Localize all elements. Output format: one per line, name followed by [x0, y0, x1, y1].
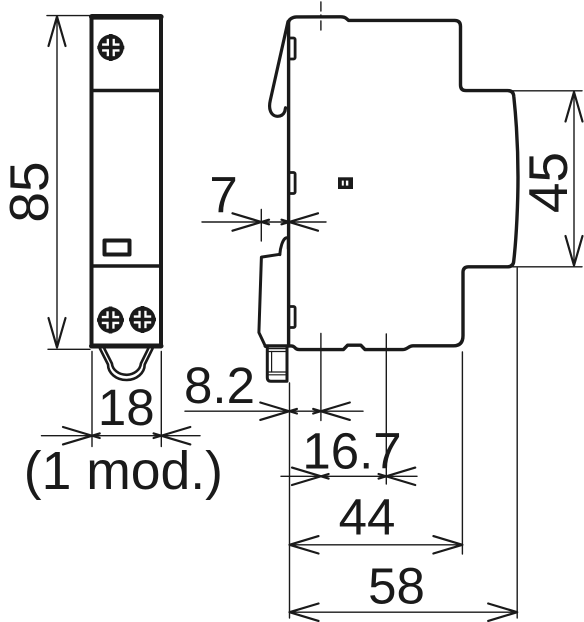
- dimension 16.7 line: [281, 475, 417, 477]
- front view upper divider: [92, 89, 162, 92]
- dimension 45 extension line bottom: [512, 266, 582, 268]
- latch rectangle bottom: [289, 307, 295, 328]
- dimension 7 arrow (pointing right): [233, 213, 270, 224]
- svg-text:58: 58: [368, 558, 425, 615]
- shared extension line left (8.2/44/58): [289, 383, 291, 618]
- dimension 7 extension line: [260, 210, 262, 242]
- DIN clip U below front view (outer): [100, 349, 153, 380]
- dimension 58 arrow right (pointing right): [488, 604, 517, 621]
- dimension 7 line: [202, 221, 326, 223]
- dimension 16.7 arrow (pointing right): [292, 468, 329, 479]
- clip foot groove lines: [269, 349, 286, 375]
- release lever (top left): [270, 22, 288, 117]
- dimension 8.2 arrow (pointing right): [260, 403, 297, 414]
- dimension 85 extension line top: [47, 15, 90, 17]
- centerline (dash-dot) at rail axis: [320, 2, 322, 33]
- dimension 45 arrow up: [566, 92, 583, 122]
- dimension 44 arrow right (pointing right): [433, 536, 462, 553]
- clip foot top edge / body bottom: [265, 344, 289, 347]
- dimension 44 arrow left (pointing left): [290, 536, 319, 553]
- dimension 45 arrow down: [566, 236, 583, 266]
- dimension 8.2 arrow (pointing left): [313, 403, 350, 414]
- svg-text:16.7: 16.7: [302, 423, 401, 480]
- dimension 16.7 extension line right: [385, 334, 387, 484]
- svg-text:44: 44: [339, 489, 396, 546]
- lower clip beak: [280, 238, 289, 255]
- dimension 85 line: [56, 17, 58, 348]
- dimension 16.7 arrow (pointing left): [379, 468, 416, 479]
- svg-text:7: 7: [209, 167, 237, 224]
- dimension 45 line: [573, 92, 575, 266]
- dimension 85 arrow up: [49, 17, 66, 47]
- front view lower divider: [92, 264, 162, 267]
- dimension 58 arrow left (pointing left): [290, 604, 319, 621]
- latch rectangle top: [289, 38, 295, 59]
- front view outer body: [92, 17, 162, 347]
- bottom terminal screw left: [97, 307, 124, 334]
- dimension 7 arrow (pointing left): [282, 213, 319, 224]
- svg-text:(1 mod.): (1 mod.): [24, 442, 223, 501]
- side view main outline: [289, 17, 518, 350]
- svg-text:8.2: 8.2: [184, 357, 255, 414]
- svg-text:85: 85: [0, 161, 60, 222]
- dimension 18 arrow at left (pointing right): [63, 427, 100, 438]
- dimension 44 extension line right: [461, 352, 463, 554]
- svg-text:45: 45: [517, 152, 579, 213]
- dimension 85 extension line bottom: [48, 348, 90, 350]
- dimension 18 extension line right: [160, 352, 162, 447]
- dimension 8.2 extension line right: [320, 334, 322, 421]
- front view thick top edge: [92, 14, 161, 20]
- dimension 8.2 line: [185, 410, 363, 412]
- dimension 18 arrow at right (pointing left): [154, 427, 191, 438]
- front view thick bottom edge: [92, 344, 162, 349]
- svg-text:18: 18: [98, 379, 155, 436]
- dimension 58 line: [290, 611, 518, 613]
- face mark (label window): [338, 177, 353, 189]
- DIN clip U below front view (inner): [104, 349, 148, 375]
- dimension 58 extension line right: [516, 268, 518, 618]
- front view indicator window: [105, 241, 130, 255]
- clip foot outline: [267, 347, 287, 382]
- latch rectangle middle: [289, 173, 295, 194]
- top terminal screw: [97, 34, 124, 61]
- dimension 18 line: [42, 435, 201, 437]
- lower clip body (bottom left): [259, 254, 280, 346]
- dimension 45 extension line top: [512, 90, 582, 92]
- dimension 44 line: [290, 544, 463, 546]
- dimension 85 arrow down: [49, 318, 66, 347]
- dimension 18 extension line left: [91, 352, 93, 447]
- bottom terminal screw right: [129, 306, 156, 333]
